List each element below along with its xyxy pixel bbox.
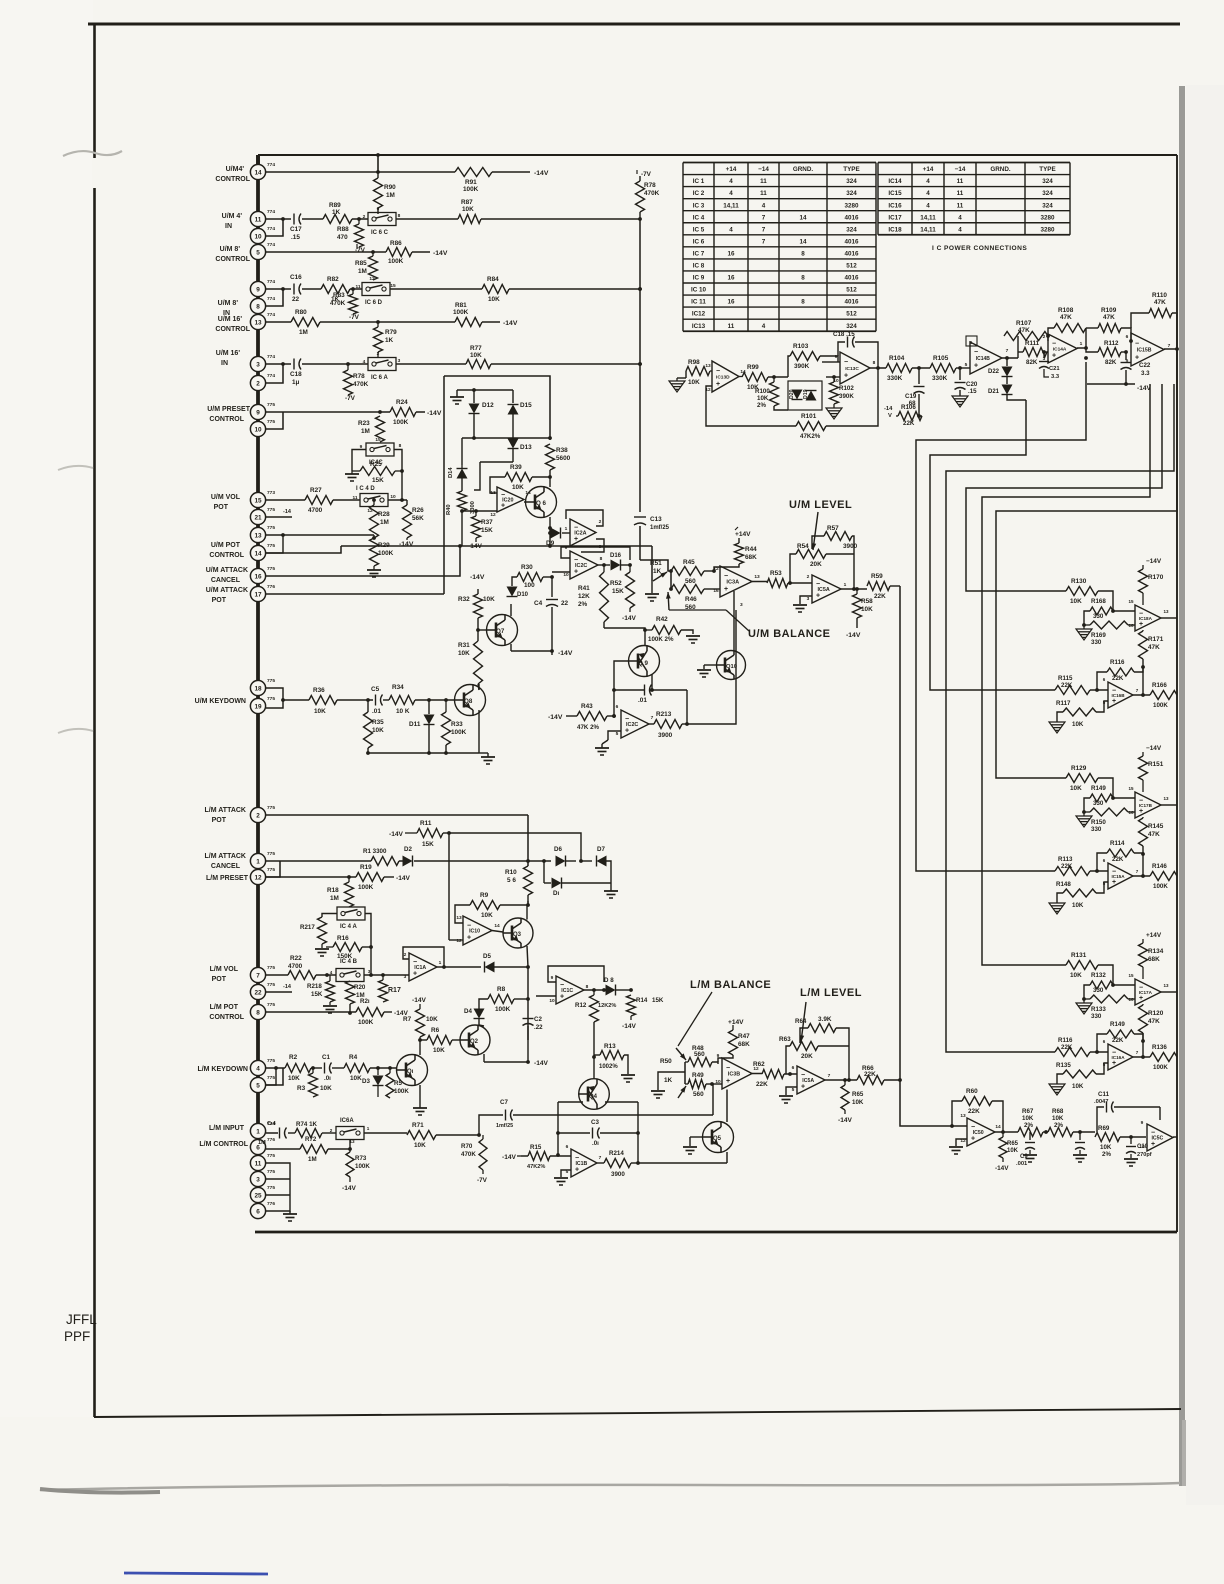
fold crease 3 — [58, 729, 93, 733]
op-amp IC16B — [1108, 682, 1133, 708]
svg-text:D3: D3 — [362, 1078, 370, 1085]
svg-text:Q7: Q7 — [496, 628, 505, 635]
svg-text:13: 13 — [705, 363, 711, 369]
resistor R108 — [1054, 324, 1086, 333]
wire row5 — [266, 251, 386, 253]
svg-text:CONTROL: CONTROL — [215, 176, 250, 183]
svg-text:324: 324 — [846, 226, 857, 233]
svg-text:47K: 47K — [1148, 1018, 1160, 1025]
svg-text:330K: 330K — [932, 375, 948, 382]
svg-text:7: 7 — [651, 715, 654, 721]
svg-text:-14V: -14V — [502, 1154, 517, 1161]
resistor R60 — [952, 1101, 962, 1126]
svg-text:1: 1 — [844, 582, 847, 588]
diode D22 — [1006, 358, 1008, 366]
wire Q10 base gnd — [704, 664, 717, 666]
resistor R116 — [1055, 1048, 1090, 1057]
svg-text:775: 775 — [267, 402, 275, 408]
resistor R111 — [1023, 348, 1047, 357]
svg-text:1: 1 — [565, 526, 568, 532]
resistor R42 — [652, 626, 681, 635]
svg-text:+: + — [574, 536, 578, 543]
svg-text:3: 3 — [398, 358, 401, 364]
svg-text:IC 10: IC 10 — [691, 287, 707, 294]
svg-text:R16: R16 — [337, 935, 349, 942]
svg-text:+: + — [575, 1167, 579, 1174]
analog switch IC4D — [360, 494, 388, 507]
wire bottom pins to ground — [266, 1163, 290, 1211]
svg-text:+: + — [560, 994, 564, 1001]
svg-text:R41: R41 — [578, 585, 590, 592]
svg-text:R136: R136 — [1152, 1044, 1167, 1051]
svg-text:-7V: -7V — [345, 395, 356, 402]
svg-text:330: 330 — [1091, 826, 1102, 833]
resistor R59 — [867, 582, 890, 591]
resistor R4 — [344, 1064, 370, 1073]
resistor R217 — [318, 917, 327, 944]
svg-text:10K: 10K — [1100, 1144, 1112, 1151]
op-amp IC5C — [1173, 1136, 1177, 1138]
resistor R104 — [886, 364, 912, 373]
wire row15 volpot — [266, 499, 305, 501]
svg-text:R4: R4 — [349, 1054, 358, 1061]
connector pin 14 at y=553 — [250, 545, 265, 560]
svg-text:1: 1 — [367, 1126, 370, 1131]
wire row1b — [266, 860, 371, 862]
resistor R105 — [930, 364, 956, 373]
connector pin 9 at y=289 — [250, 281, 265, 296]
svg-text:CANCEL: CANCEL — [211, 577, 241, 584]
wire connector stub — [266, 219, 283, 236]
svg-text:IC15: IC15 — [888, 190, 902, 197]
bus wire B4 — [966, 384, 1162, 591]
svg-text:R87: R87 — [461, 199, 473, 206]
wire IC2C low plus — [608, 731, 621, 740]
capacitor C9b — [1079, 1132, 1081, 1140]
svg-text:R40: R40 — [446, 504, 452, 515]
svg-text:18: 18 — [254, 685, 262, 692]
svg-text:R53: R53 — [770, 570, 782, 577]
svg-text:+: + — [467, 934, 471, 941]
svg-text:R31: R31 — [458, 642, 470, 649]
svg-text:C18: C18 — [290, 371, 302, 378]
op-amp IC15B — [1131, 333, 1164, 366]
resistor R78 — [344, 370, 353, 395]
resistor R8 — [488, 995, 514, 1004]
svg-text:6: 6 — [377, 206, 380, 212]
svg-text:-14V: -14V — [622, 1023, 637, 1030]
svg-text:5: 5 — [256, 1082, 260, 1089]
svg-text:IC 11: IC 11 — [691, 299, 706, 306]
svg-text:1K: 1K — [653, 568, 662, 575]
wire IC2C up out — [598, 564, 610, 566]
svg-text:512: 512 — [846, 263, 857, 270]
svg-text:20K: 20K — [810, 561, 822, 568]
op-amp IC20 — [497, 487, 524, 512]
resistor R71 — [407, 1131, 436, 1140]
ground D12 — [456, 390, 458, 397]
svg-text:773: 773 — [267, 490, 275, 496]
svg-text:IC3B: IC3B — [728, 1072, 740, 1078]
svg-text:3: 3 — [740, 602, 743, 608]
wire IC14A plus — [1044, 351, 1048, 353]
svg-text:560: 560 — [685, 578, 696, 585]
svg-text:IC16B: IC16B — [1111, 693, 1125, 698]
svg-text:10K: 10K — [1070, 785, 1082, 792]
wire R214 out — [638, 1162, 727, 1164]
svg-text:3.9K: 3.9K — [818, 1016, 832, 1023]
wire Q1 collector — [419, 1040, 421, 1054]
resistor R87 — [458, 215, 481, 224]
connector pin 4 at y=1068 — [250, 1060, 265, 1075]
connector pin 1 at y=861 — [250, 853, 265, 868]
svg-text:L/M VOL: L/M VOL — [210, 966, 239, 973]
svg-text:R7: R7 — [403, 1016, 412, 1023]
wire Q8 collector — [478, 684, 480, 690]
svg-text:12: 12 — [254, 874, 262, 881]
svg-text:47K: 47K — [1018, 327, 1030, 334]
transistor Q7 — [487, 615, 518, 646]
wire Q7 emitter — [510, 644, 512, 651]
svg-text:C4: C4 — [534, 600, 543, 607]
svg-text:C1: C1 — [322, 1054, 330, 1061]
svg-text:560: 560 — [693, 1091, 704, 1098]
svg-text:774: 774 — [267, 354, 275, 360]
resistor R78b — [636, 181, 645, 212]
resistor R62 — [762, 1070, 784, 1079]
svg-text:R1 3300: R1 3300 — [363, 848, 387, 855]
svg-text:3280: 3280 — [1040, 214, 1055, 221]
svg-text:R131: R131 — [1071, 952, 1087, 959]
svg-text:14: 14 — [799, 238, 807, 245]
svg-text:10 K: 10 K — [396, 708, 410, 715]
wire row12 — [266, 876, 356, 878]
svg-text:10: 10 — [254, 233, 262, 240]
diode D11 — [428, 700, 430, 714]
svg-text:IC16: IC16 — [888, 202, 902, 209]
svg-text:390K: 390K — [839, 393, 854, 400]
svg-text:R150: R150 — [1091, 819, 1106, 826]
svg-text:2: 2 — [599, 519, 602, 525]
svg-text:6: 6 — [1126, 334, 1129, 340]
svg-text:774: 774 — [267, 296, 275, 302]
svg-text:CONTROL: CONTROL — [209, 416, 244, 423]
svg-text:22: 22 — [254, 989, 262, 996]
svg-text:270pf: 270pf — [1137, 1152, 1152, 1158]
resistor R166 — [1150, 691, 1177, 700]
capacitor C17 — [293, 214, 295, 225]
svg-text:775: 775 — [267, 419, 275, 425]
svg-text:-14V: -14V — [548, 714, 563, 721]
svg-text:R43: R43 — [581, 703, 593, 710]
connector pin 8 at y=1012 — [250, 1004, 265, 1019]
svg-text:R62: R62 — [753, 1061, 765, 1068]
svg-text:1mf/25: 1mf/25 — [650, 525, 670, 531]
svg-text:-14V: -14V — [503, 320, 518, 327]
svg-text:19: 19 — [254, 703, 262, 710]
svg-text:R113: R113 — [1058, 856, 1073, 863]
svg-text:16: 16 — [1128, 810, 1134, 815]
svg-text:10K: 10K — [688, 379, 700, 386]
resistor R83 — [349, 294, 358, 314]
svg-text:82K: 82K — [1026, 359, 1038, 366]
resistor R20 — [346, 981, 355, 1004]
svg-text:−14: −14 — [955, 166, 966, 173]
svg-text:775: 775 — [267, 982, 275, 988]
svg-text:C7: C7 — [500, 1099, 508, 1106]
svg-text:9: 9 — [565, 545, 568, 551]
svg-text:4: 4 — [926, 202, 930, 209]
svg-text:7: 7 — [599, 1155, 602, 1161]
svg-text:68K: 68K — [1148, 956, 1160, 963]
resistor R7 — [416, 1009, 425, 1037]
capacitor C9a — [644, 685, 646, 696]
diode D5 — [485, 962, 495, 973]
svg-text:4: 4 — [256, 1065, 260, 1072]
svg-text:R36: R36 — [313, 687, 325, 694]
svg-text:R39: R39 — [510, 464, 522, 471]
resistor R130 — [1066, 587, 1098, 596]
svg-text:R68: R68 — [1052, 1108, 1064, 1115]
svg-text:-7V: -7V — [349, 314, 360, 321]
diode D14 — [461, 465, 463, 468]
svg-text:R114: R114 — [1110, 840, 1125, 847]
svg-text:+: + — [844, 373, 848, 380]
svg-text:D10: D10 — [517, 592, 529, 598]
svg-text:R3: R3 — [297, 1085, 306, 1092]
svg-text:11: 11 — [957, 202, 964, 209]
svg-text:1M: 1M — [361, 428, 370, 435]
wire IC5C junction — [1145, 1130, 1147, 1132]
svg-text:4: 4 — [330, 970, 333, 975]
ground IC4C — [345, 473, 359, 475]
svg-text:10K: 10K — [314, 708, 326, 715]
resistor R28 — [370, 505, 379, 538]
pot R54 level — [796, 550, 826, 559]
resistor R84 — [482, 285, 509, 294]
svg-text:R98: R98 — [688, 359, 700, 366]
svg-text:3900: 3900 — [611, 1171, 625, 1178]
connector pin 3 at y=364 — [250, 356, 265, 371]
svg-text:C3: C3 — [591, 1119, 599, 1126]
wire row4 — [266, 1067, 285, 1069]
svg-text:1M: 1M — [258, 1140, 266, 1146]
resistor R33 — [442, 712, 451, 745]
wire IC10 plus — [449, 939, 463, 941]
IC power table left — [683, 162, 876, 164]
svg-text:1K: 1K — [664, 1077, 673, 1084]
svg-text:6: 6 — [566, 1144, 569, 1150]
svg-text:D11: D11 — [409, 721, 421, 728]
svg-text:D4: D4 — [464, 1008, 472, 1015]
wire row3 out — [396, 363, 466, 365]
svg-text:100K: 100K — [495, 1006, 511, 1013]
svg-text:4700: 4700 — [308, 507, 323, 514]
op-amp IC13C — [840, 352, 870, 384]
svg-text:R2: R2 — [289, 1054, 298, 1061]
svg-text:CONTROL: CONTROL — [215, 256, 250, 263]
svg-text:3: 3 — [256, 1176, 260, 1183]
op-amp IC2A — [570, 519, 596, 546]
resistor R113 — [1055, 867, 1090, 876]
resistor R31 — [474, 641, 483, 684]
svg-text:R71: R71 — [412, 1122, 424, 1129]
svg-text:Q2: Q2 — [470, 1039, 479, 1045]
connector pin 10 at y=429 — [250, 421, 265, 436]
resistor R70 — [479, 1135, 483, 1139]
svg-text:R65: R65 — [1007, 1141, 1019, 1147]
transistor Q1 — [397, 1055, 428, 1086]
op-amp IC14A — [1048, 334, 1077, 363]
resistor R213 — [649, 723, 654, 725]
svg-text:775: 775 — [267, 1075, 275, 1081]
svg-text:7: 7 — [1168, 343, 1171, 349]
svg-text:13: 13 — [1163, 609, 1169, 614]
wire IC3B out — [752, 1073, 762, 1075]
resistor R27 — [305, 496, 333, 505]
capacitor C22 — [1125, 352, 1127, 360]
ground R102 — [826, 408, 842, 419]
bus wire B2 — [930, 400, 1055, 690]
wire IC13C out — [870, 367, 886, 369]
wire Q6 bottom — [549, 533, 551, 546]
wire IC1A out — [437, 966, 481, 968]
svg-text:.0ı: .0ı — [324, 1075, 331, 1082]
svg-text:16: 16 — [713, 588, 719, 594]
resistor R120 — [1139, 1005, 1148, 1033]
svg-text:1M: 1M — [308, 1156, 317, 1163]
svg-text:775: 775 — [267, 678, 275, 684]
svg-text:10K: 10K — [288, 1075, 300, 1082]
resistor R99 — [739, 376, 742, 378]
capacitor C21 — [1043, 352, 1045, 358]
svg-text:R130: R130 — [1071, 578, 1087, 585]
svg-text:775: 775 — [267, 566, 275, 572]
op-amp IC3B — [722, 1058, 752, 1089]
svg-text:12K2%: 12K2% — [598, 1003, 616, 1009]
svg-text:10K: 10K — [372, 727, 384, 734]
svg-text:2%: 2% — [757, 402, 766, 409]
wire box bottom — [341, 545, 652, 547]
svg-text:+: + — [574, 569, 578, 576]
svg-text:L/M LEVEL: L/M LEVEL — [800, 987, 862, 999]
svg-text:-14V: -14V — [389, 831, 404, 838]
svg-text:10K: 10K — [458, 650, 470, 657]
svg-text:C17: C17 — [290, 226, 302, 233]
resistor R57 — [824, 532, 852, 541]
svg-text:-14: -14 — [283, 984, 292, 990]
svg-text:R171: R171 — [1148, 636, 1164, 643]
svg-text:100K: 100K — [393, 419, 409, 426]
svg-text:10K: 10K — [1070, 972, 1082, 979]
svg-text:R72: R72 — [305, 1136, 317, 1143]
wire IC1C in — [528, 995, 556, 997]
svg-text:R149: R149 — [1091, 785, 1106, 792]
svg-text:IC18: IC18 — [888, 226, 902, 233]
resistor R25 — [360, 467, 395, 476]
svg-text:IC50: IC50 — [973, 1130, 984, 1136]
svg-text:6: 6 — [256, 1208, 260, 1215]
svg-text:R52: R52 — [610, 580, 622, 587]
svg-text:47K 2%: 47K 2% — [577, 724, 600, 731]
svg-text:IC 9: IC 9 — [693, 275, 705, 282]
svg-text:14: 14 — [254, 550, 262, 557]
svg-text:R17: R17 — [388, 987, 401, 994]
svg-text:R32: R32 — [458, 596, 470, 603]
svg-text:R115: R115 — [1058, 675, 1073, 682]
svg-text:R85: R85 — [355, 260, 367, 267]
svg-text:17: 17 — [254, 591, 262, 598]
svg-text:774: 774 — [267, 242, 275, 248]
svg-text:16: 16 — [1128, 997, 1134, 1002]
diode D8 — [606, 985, 616, 996]
svg-text:L/M ATTACK: L/M ATTACK — [205, 853, 246, 860]
resistor R171 — [1139, 631, 1148, 659]
svg-text:-14V: -14V — [846, 632, 861, 639]
analog switch IC4C — [366, 443, 394, 456]
svg-text:IC2A: IC2A — [574, 531, 586, 537]
svg-text:R59: R59 — [871, 573, 883, 580]
capacitor C13 — [634, 516, 646, 518]
wire pin21 stub — [266, 516, 292, 518]
capacitor C19 — [918, 368, 920, 384]
svg-text:3900: 3900 — [658, 732, 673, 739]
op-amp IC14B — [970, 342, 1002, 374]
svg-text:15K: 15K — [311, 991, 323, 998]
svg-text:22K: 22K — [1061, 1044, 1073, 1051]
svg-text:D 8: D 8 — [604, 977, 614, 984]
bus wire B5 — [982, 384, 1150, 965]
analog switch IC4B — [336, 969, 364, 982]
wire D13 rail — [462, 437, 550, 439]
svg-text:330: 330 — [1093, 613, 1104, 620]
svg-text:R112: R112 — [1104, 340, 1119, 347]
svg-text:TYPE: TYPE — [843, 166, 859, 173]
ground R117 — [1049, 722, 1065, 733]
svg-text:U/M PRESET: U/M PRESET — [207, 406, 251, 413]
svg-text:13: 13 — [754, 574, 760, 580]
resistor R109 — [1098, 324, 1121, 333]
resistor R103 — [788, 356, 790, 377]
connector pin 6 at y=1211 — [250, 1203, 265, 1218]
svg-text:L/M POT: L/M POT — [210, 1004, 239, 1011]
svg-text:+: + — [1052, 352, 1056, 359]
svg-text:22K: 22K — [874, 593, 886, 600]
analog switch IC6A2 — [336, 1127, 364, 1140]
wire Q6 to D9 — [549, 528, 551, 533]
svg-text:.22: .22 — [534, 1024, 543, 1031]
ground C20 — [952, 396, 968, 407]
wire Q4 loop sides — [557, 1102, 559, 1155]
resistor R146 — [1150, 872, 1177, 881]
svg-text:R145: R145 — [1148, 823, 1164, 830]
svg-text:100K: 100K — [394, 1088, 409, 1095]
connector pin 25 at y=1195 — [250, 1187, 265, 1202]
svg-text:R37: R37 — [481, 519, 493, 526]
svg-text:10: 10 — [715, 1079, 721, 1085]
wire Q10 collector — [733, 591, 735, 651]
op-amp IC16A — [1108, 1044, 1133, 1070]
svg-text:+14V: +14V — [1146, 932, 1162, 939]
svg-text:R10: R10 — [505, 869, 517, 876]
op-amp IC15A — [1108, 863, 1133, 889]
svg-text:R168: R168 — [1091, 598, 1106, 605]
svg-text:R116: R116 — [1110, 659, 1125, 666]
svg-text:10: 10 — [390, 494, 396, 500]
wire IC18A top — [1142, 593, 1144, 618]
svg-text:IN: IN — [225, 223, 232, 230]
ground bottom pins — [283, 1213, 297, 1215]
